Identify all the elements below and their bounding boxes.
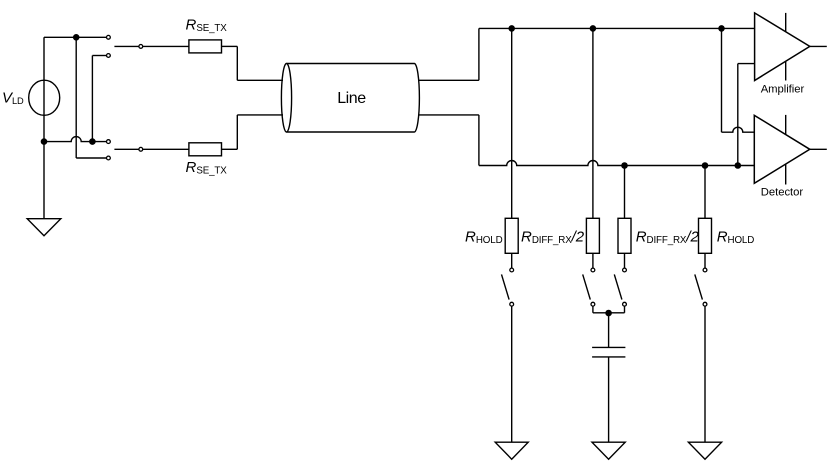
detector U2	[754, 115, 810, 185]
wire S5 down to join	[624, 306, 626, 313]
svg-text:Line: Line	[337, 90, 366, 107]
wire join horizontal	[593, 312, 625, 314]
wire switch S6 to ground	[704, 306, 706, 442]
wire detector output	[810, 148, 827, 150]
wire detector upper input horizontal with crossover hop	[722, 127, 755, 132]
wire RDIFF right to switch	[624, 253, 626, 268]
node N rail at RHOLD right	[702, 163, 707, 168]
wire switch S3 to ground	[511, 306, 513, 442]
wire vertical up to line input bottom	[236, 115, 238, 149]
wire line top output	[419, 79, 479, 81]
ground below capacitor	[592, 442, 625, 459]
wire amplifier lower input horizontal	[738, 63, 755, 65]
wire vertical from top junction down to lower switch lower contact level	[75, 37, 77, 158]
wire vertical up to P rail	[478, 28, 480, 80]
ground below S6	[688, 442, 721, 459]
wire horizontal into line bottom input	[237, 114, 283, 116]
resistor RDIFF_RX/2 right	[618, 218, 631, 253]
resistor RHOLD left	[505, 218, 518, 253]
svg-text:RHOLD: RHOLD	[465, 228, 503, 246]
svg-text:RDIFF_RX/2: RDIFF_RX/2	[636, 228, 700, 246]
wire horizontal from upper switch lower contact	[92, 55, 107, 57]
ground (below source)	[27, 219, 61, 236]
wire RDIFF left to switch	[592, 253, 594, 268]
svg-text:RSE_TX: RSE_TX	[186, 17, 228, 35]
switch S2 lower polarity switch	[107, 140, 189, 160]
wire S4 down to join	[592, 306, 594, 313]
wire line bottom output	[419, 114, 479, 116]
wire from bottom resistor right	[222, 148, 238, 150]
wire vertical RHOLD left branch from P rail	[511, 28, 513, 218]
switch S4 below RDIFF left	[583, 268, 595, 306]
wire vertical from upper switch lower contact down to source bottom rail	[91, 56, 93, 142]
node N rail at RDIFF right	[622, 163, 627, 168]
wire horizontal into line top input	[237, 79, 283, 81]
resistor RDIFF_RX/2 left	[586, 218, 599, 253]
node P rail at RDIFF left	[590, 26, 595, 31]
wire vertical RHOLD right branch from N rail	[704, 166, 706, 219]
wire left vertical through voltage source down to ground	[43, 37, 45, 218]
svg-text:VLD: VLD	[2, 90, 24, 107]
wire capacitor to ground	[608, 357, 610, 442]
switch S3 below RHOLD left	[502, 268, 514, 306]
wire RHOLD right to switch	[704, 253, 706, 268]
transmission line cylinder body	[287, 64, 420, 133]
switch S5 below RDIFF right	[614, 268, 626, 306]
wire N rail bottom horizontal with two crossover hops	[479, 161, 754, 166]
node P rail at RHOLD left	[509, 26, 514, 31]
svg-text:Amplifier: Amplifier	[761, 83, 805, 95]
wire horizontal into lower switch lower contact	[76, 157, 107, 159]
wire vertical down to line input top	[236, 46, 238, 80]
amplifier U1	[755, 13, 810, 81]
svg-text:Detector: Detector	[761, 186, 804, 198]
svg-text:RSE_TX: RSE_TX	[186, 159, 228, 177]
node source bottom junction	[41, 139, 46, 144]
wire vertical from P rail down to detector input	[721, 28, 723, 132]
wire vertical RDIFF right branch from N rail	[624, 166, 626, 219]
ground below S3	[495, 442, 528, 459]
wire vertical RDIFF left branch from P rail	[592, 28, 594, 218]
wire vertical from amplifier lower input down to N rail	[737, 64, 739, 166]
wire vertical down to N rail	[478, 115, 480, 166]
svg-text:RDIFF_RX/2: RDIFF_RX/2	[521, 228, 585, 246]
voltage source VLD	[29, 80, 60, 115]
resistor RHOLD right	[699, 218, 712, 253]
node bottom rail junction	[90, 139, 95, 144]
wire P rail top horizontal	[479, 27, 755, 29]
wire top-left horizontal from source top to switch contact	[44, 36, 107, 38]
node join	[606, 310, 611, 315]
wire from top resistor right	[222, 45, 238, 47]
resistor RSE_TX bottom	[189, 143, 222, 156]
switch S6 below RHOLD right	[695, 268, 707, 306]
wire join down to capacitor	[608, 313, 610, 347]
node top junction	[74, 35, 79, 40]
resistor RSE_TX top	[189, 40, 222, 53]
node N rail at amplifier feed	[735, 163, 740, 168]
svg-text:RHOLD: RHOLD	[717, 228, 755, 246]
wire amplifier output	[810, 45, 827, 47]
wire RHOLD left to switch	[511, 253, 513, 268]
wire source bottom rail with crossover hop	[44, 137, 107, 142]
switch S1 upper polarity switch	[107, 35, 189, 57]
transmission line left end ellipse	[281, 64, 291, 133]
node P rail at detector feed	[719, 26, 724, 31]
capacitor C1	[592, 347, 625, 357]
